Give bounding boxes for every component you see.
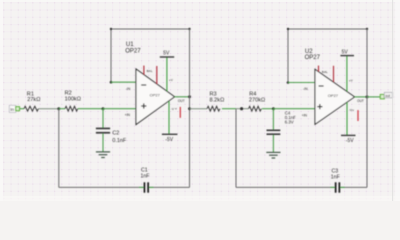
V+ supply pin bbox=[166, 57, 168, 91]
svg-text:R2: R2 bbox=[65, 90, 72, 96]
corner node at -IN U2 bbox=[287, 81, 290, 84]
wire R3 to corner bbox=[222, 108, 236, 110]
resistor R1 bbox=[24, 106, 38, 111]
V- supply pin U2 bbox=[346, 102, 348, 135]
ground under C2 bbox=[96, 152, 110, 158]
wire R2 to node B bbox=[78, 108, 103, 110]
net: output 2 down to bottom loop 2 bbox=[366, 29, 368, 187]
bottom loop wire stage 2 bbox=[236, 186, 335, 188]
node C junction (C4 tap) bbox=[272, 107, 275, 110]
balance pin 8 U2 (red) bbox=[333, 66, 335, 82]
unused pin U2 (red) bbox=[357, 110, 359, 121]
capacitor C1 bbox=[144, 182, 146, 192]
svg-text:U1: U1 bbox=[126, 42, 134, 48]
output node U2 junction bbox=[366, 95, 369, 98]
output node U1 junction bbox=[188, 95, 191, 98]
5V supply bar U1 bbox=[160, 56, 174, 58]
tee junction to R3 wire bbox=[188, 107, 191, 110]
svg-text:270kΩ: 270kΩ bbox=[249, 98, 265, 104]
corner node at -IN bbox=[110, 81, 113, 84]
wire node C to op-amp 2 + input bbox=[273, 108, 315, 110]
wire corner down to bottom loop 2 bbox=[235, 109, 237, 188]
svg-text:5V: 5V bbox=[163, 51, 170, 57]
wire R4 to node C bbox=[262, 108, 273, 110]
svg-text:-5V: -5V bbox=[165, 137, 173, 143]
green stubs at C1 bbox=[139, 186, 144, 188]
svg-text:1nF: 1nF bbox=[141, 173, 150, 179]
wire port to R1 bbox=[20, 108, 25, 110]
wire output node to port bbox=[367, 96, 381, 98]
wire node A down to bottom loop bbox=[58, 109, 60, 188]
svg-text:+IN: +IN bbox=[302, 114, 308, 118]
svg-text:100kΩ: 100kΩ bbox=[65, 97, 81, 103]
plus input symbol bbox=[141, 105, 146, 107]
op-amp U1 triangle bbox=[136, 69, 175, 125]
unused pin (red) below output bbox=[179, 107, 181, 118]
svg-text:BAL: BAL bbox=[147, 69, 153, 73]
svg-text:5V: 5V bbox=[342, 50, 349, 56]
-5V supply bar U2 bbox=[341, 134, 356, 136]
balance pin 1 U2 (red) bbox=[318, 66, 320, 72]
output port bbox=[380, 92, 392, 98]
minus input symbol bbox=[141, 84, 146, 86]
node B junction (C2 tap) bbox=[102, 107, 105, 110]
resistor R4 bbox=[249, 106, 262, 111]
bottom loop wire stage 1 bbox=[59, 186, 144, 188]
feedback wire U1: output up and over to - input bbox=[111, 29, 190, 97]
svg-text:-v: -v bbox=[174, 106, 177, 110]
balance pin 1 (red) bbox=[143, 66, 145, 75]
svg-text:8.2kΩ: 8.2kΩ bbox=[210, 98, 225, 104]
svg-text:BAL: BAL bbox=[322, 70, 328, 74]
output wire U2 bbox=[355, 96, 368, 98]
page edge lightening bbox=[0, 0, 3, 201]
svg-text:OUT: OUT bbox=[357, 99, 364, 103]
capacitor C2 bbox=[96, 109, 127, 152]
svg-text:C3: C3 bbox=[332, 168, 339, 174]
wire node B to op-amp + input bbox=[103, 108, 137, 110]
junction top-right corner U2 bbox=[366, 28, 368, 30]
-5V supply bar U1 bbox=[162, 133, 178, 135]
junction top-left corner bbox=[110, 28, 112, 30]
wire R1 to node A bbox=[38, 108, 58, 110]
svg-text:C2: C2 bbox=[112, 131, 119, 137]
svg-text:-5V: -5V bbox=[346, 138, 354, 144]
svg-text:OUT: OUT bbox=[178, 99, 185, 103]
op-amp U2 triangle bbox=[315, 69, 355, 124]
wire node A to R2 bbox=[59, 108, 65, 110]
R4 pin junction bbox=[240, 107, 243, 110]
junction top-left corner U2 bbox=[287, 28, 289, 30]
svg-text:6.3V: 6.3V bbox=[285, 120, 294, 125]
wire to - input U2 bbox=[288, 82, 316, 84]
svg-text:OP27: OP27 bbox=[305, 55, 321, 61]
svg-text:U2: U2 bbox=[305, 49, 313, 55]
wire corner to R4 pin node bbox=[236, 108, 249, 110]
wire out node to R3 bbox=[190, 108, 208, 110]
output wire U1 bbox=[175, 96, 190, 98]
svg-text:OP27: OP27 bbox=[328, 93, 339, 98]
capacitor C3 bbox=[335, 182, 337, 192]
node A junction bbox=[57, 107, 60, 110]
svg-text:OP27: OP27 bbox=[125, 48, 141, 54]
svg-text:+IN: +IN bbox=[125, 113, 131, 117]
plus input symbol U2 bbox=[317, 106, 322, 108]
svg-text:27kΩ: 27kΩ bbox=[27, 97, 40, 103]
ground under C4 bbox=[266, 152, 280, 158]
svg-text:-IN: -IN bbox=[303, 87, 308, 91]
V+ supply pin U2 bbox=[346, 56, 348, 92]
green stubs at C3 bbox=[330, 186, 335, 188]
svg-text:-v: -v bbox=[351, 108, 354, 112]
net: output down to stage wire and bottom loop bbox=[189, 29, 191, 187]
5V supply bar U2 bbox=[340, 55, 354, 57]
balance pin 8 (red) bbox=[156, 66, 158, 84]
svg-text:0.1nF: 0.1nF bbox=[112, 138, 126, 144]
svg-text:out: out bbox=[385, 94, 390, 98]
minus input symbol U2 bbox=[319, 85, 324, 87]
svg-text:1nF: 1nF bbox=[331, 175, 340, 181]
wire to - input bbox=[111, 81, 137, 83]
V- supply pin bbox=[168, 101, 170, 134]
resistor R2 bbox=[65, 106, 78, 111]
input port IN bbox=[9, 105, 19, 112]
feedback wire U2: output up and over to - input bbox=[288, 29, 367, 97]
svg-text:In: In bbox=[10, 107, 14, 112]
svg-text:-IN: -IN bbox=[126, 87, 131, 91]
resistor R3 bbox=[207, 106, 220, 111]
svg-text:OP27: OP27 bbox=[150, 92, 161, 97]
capacitor C4 bbox=[267, 109, 297, 152]
junction top-right corner bbox=[188, 28, 190, 30]
